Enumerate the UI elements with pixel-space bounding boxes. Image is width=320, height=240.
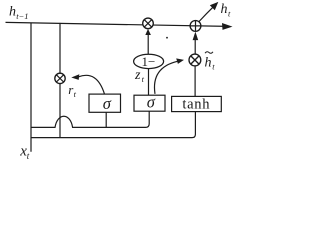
ink speck [166, 37, 168, 39]
arrowhead right end of top line [222, 23, 233, 30]
wire vertical x=60 from top line to reset multiplier [59, 23, 61, 73]
wire curved arrow sigma2 (z_t) to htilde multiplier [154, 61, 177, 94]
wire from plus down to htilde multiplier (shaft) [194, 40, 196, 55]
svg-text:t−1: t−1 [16, 11, 28, 21]
label h_t output [221, 2, 232, 18]
wire stub from upper bus up into sigma1 [105, 112, 107, 127]
arrowhead up into top multiplier [145, 29, 151, 35]
wire diagonal output arrow shaft to h_t [199, 6, 215, 22]
wire lower bottom bus (x_t) to tanh [31, 112, 195, 138]
label x_t [19, 144, 30, 161]
svg-text:h: h [205, 55, 212, 70]
wire from htilde multiplier down to tanh [194, 66, 196, 97]
arrowhead of sigma1 arc into reset multiplier [71, 74, 79, 80]
svg-text:h: h [9, 4, 16, 19]
adder circle on top line [190, 21, 201, 32]
sigma box U2 (update gate) [134, 93, 165, 112]
reset multiplier circle r_t [55, 73, 65, 83]
arrowhead of z arc into htilde multiplier [176, 58, 184, 64]
X of htilde multiplier [191, 56, 199, 64]
wire vertical x=60 from reset multiplier down to lower bus [59, 84, 61, 138]
svg-text:σ: σ [147, 93, 156, 112]
arrowhead of diagonal h_t output [210, 2, 219, 10]
wire vertical left x=31 from top line to bottom [30, 23, 32, 152]
wire h(t-1) top horizontal line [6, 22, 229, 26]
label h-tilde t [205, 52, 216, 72]
label r_t [68, 82, 76, 99]
wire upper bottom bus with hop over x=60 [31, 111, 149, 127]
label h(t-1) [9, 4, 29, 21]
wire z_t vertical from ellipse to sigma2 [148, 69, 150, 96]
label z_t [134, 68, 145, 84]
svg-text:σ: σ [103, 94, 112, 113]
svg-text:z: z [134, 68, 141, 83]
svg-text:h: h [221, 2, 228, 17]
plus of adder [190, 21, 201, 32]
svg-text:tanh: tanh [182, 97, 210, 113]
sigma box U1 (reset gate) [89, 94, 121, 113]
gate ellipse 1-minus [134, 54, 164, 69]
multiplier circle (1-z) on top line [143, 18, 154, 29]
X of top multiplier [144, 20, 151, 27]
wire curved arrow sigma1 to reset multiplier [79, 75, 105, 94]
tanh box U3 [172, 96, 222, 112]
svg-text:1−: 1− [141, 54, 155, 69]
htilde multiplier circle [189, 54, 201, 66]
wire from ellipse top up to multiplier (shaft) [147, 34, 149, 55]
arrowhead up into adder [193, 32, 199, 40]
X of reset multiplier [56, 75, 63, 82]
